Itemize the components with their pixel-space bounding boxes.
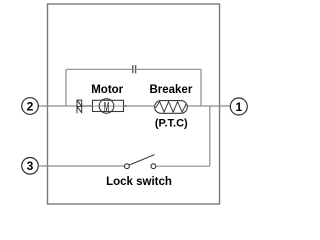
wire: top loop horizontal left of capacitor [66,68,132,70]
lock switch right contact [151,164,156,169]
motor M1 box [93,100,124,111]
terminal 3 [22,158,39,175]
lock switch blade [129,155,154,165]
wire: breaker to terminal 1 [187,105,230,107]
motor protector symbol [77,100,82,114]
svg-text:3: 3 [27,159,34,173]
terminal 1 [230,98,247,115]
wire: motor to breaker [124,105,128,107]
wire: terminal 3 to switch left contact [38,165,124,167]
svg-text:Lock switch: Lock switch [106,176,172,188]
wire: terminal 2 to protector [38,105,77,107]
svg-text:1: 1 [235,100,242,114]
svg-text:(P.T.C): (P.T.C) [155,118,188,130]
svg-text:M: M [104,101,109,115]
wire through motor box [93,105,124,107]
wire: top loop horizontal right of capacitor [136,68,201,70]
motor M letter [104,101,109,115]
svg-text:2: 2 [27,99,34,113]
outer case box [48,4,220,204]
terminal 2 [22,98,39,115]
wire: switch to right riser [156,165,210,167]
capacitor [133,65,136,73]
wire: right riser up to main line [209,106,211,166]
breaker zigzag [156,102,187,113]
lock switch left contact [125,164,130,169]
wire: top loop left vertical [65,69,67,106]
wire: protector to motor box [82,105,93,107]
wire: top loop right vertical [200,69,202,106]
svg-text:Breaker: Breaker [149,84,192,96]
svg-text:Motor: Motor [91,84,123,96]
breaker pill body [155,101,188,114]
motor M1 circle [99,99,114,114]
